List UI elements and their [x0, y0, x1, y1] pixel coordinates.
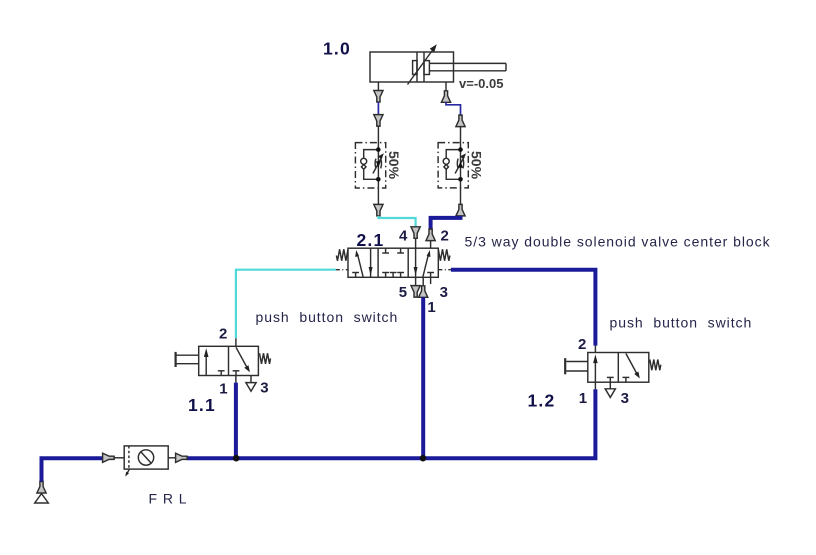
svg-text:v=-0.05: v=-0.05	[459, 76, 503, 91]
node: cylinder right port flow arrow (up)	[441, 91, 450, 103]
port label 2 (top)	[441, 228, 449, 245]
port label 3 (valve 1.2)	[621, 390, 629, 407]
description: 5/3 way valve	[465, 234, 771, 250]
svg-text:50%: 50%	[386, 151, 402, 180]
valve 1.1: 3/2 push button body	[199, 346, 259, 375]
node: flow valve V1 outlet arrow	[374, 204, 383, 216]
wire: valve 1.1 port 1 stub	[235, 376, 237, 383]
valve 2.1 right return spring	[438, 249, 450, 260]
cylinder 1.0 piston rod	[429, 63, 506, 70]
port label 5	[399, 284, 407, 301]
valve 1.2: 3/2 push button body	[588, 353, 649, 383]
flow control valve V1 (left, 50%)	[355, 143, 385, 188]
wire: port 1 stub	[422, 277, 424, 286]
valve 2.1 left return spring	[336, 249, 348, 260]
valve 1.2 return spring	[650, 360, 661, 371]
label: V2 50%	[468, 151, 484, 180]
valve 1.2 exhaust port 3 silencer	[605, 382, 615, 397]
svg-text:2.1: 2.1	[357, 230, 385, 250]
valve 1.1 push button actuator	[176, 352, 199, 367]
description: push button switch (left)	[256, 309, 399, 325]
node: flow valve V2 outlet arrow (up)	[456, 204, 465, 216]
FRL service unit	[124, 446, 168, 477]
port label 3 (valve 1.1)	[260, 380, 268, 397]
valve 1.1 label	[188, 395, 216, 415]
svg-text:1: 1	[427, 299, 435, 316]
wire: FRL inlet stub	[114, 457, 124, 459]
wire: port 4 stub	[415, 238, 417, 248]
wire: V1 to 5/3 valve port 4 (cyan)	[378, 216, 415, 227]
wire: valve 1.2 port 1 down and left along manifold	[187, 389, 596, 458]
svg-text:50%: 50%	[468, 151, 484, 180]
valve 1.1 left cell: 1 to 2 up arrow	[204, 348, 209, 375]
valve 2.1 right pilot line	[438, 269, 451, 271]
valve 2.1 left pilot line	[336, 269, 348, 271]
node: flow valve V2 inlet arrow (up)	[456, 115, 465, 127]
label: V1 50%	[386, 151, 402, 180]
node A: junction dot at valve 1.1 branch	[233, 455, 240, 462]
node B: junction dot at valve 2.1 branch	[420, 455, 427, 462]
svg-text:F R L: F R L	[149, 491, 188, 507]
cylinder 1.0 body	[370, 52, 454, 82]
wire: port 5 stub	[415, 277, 417, 286]
svg-text:2: 2	[578, 336, 586, 353]
svg-text:5: 5	[399, 284, 407, 301]
wire: cylinder left port stub	[377, 82, 379, 91]
wire: valve 1.2 port 1 stub	[594, 382, 596, 389]
wire: 5/3 port 1 down to junction B	[421, 297, 425, 458]
valve 2.1 center cell blocked ports	[382, 248, 404, 277]
valve 1.2 label	[528, 391, 556, 411]
valve 2.1 right cell: 4 to 5 down arrow	[414, 248, 418, 277]
node: port 5 exhaust arrow (down)	[411, 286, 420, 298]
wire: cylinder left port to flow valve (pressurized)	[377, 102, 379, 115]
valve 2.1 label	[357, 230, 385, 250]
svg-text:3: 3	[440, 284, 448, 301]
svg-text:4: 4	[399, 228, 408, 245]
svg-text:1: 1	[579, 390, 587, 407]
port label 1 (valve 2.1)	[427, 299, 435, 316]
valve 2.1: 5/3-way body	[348, 248, 438, 277]
valve 2.1 left cell: 2 to 3 down arrow	[369, 248, 373, 277]
wire: valve 1.1 port 1 down to junction A	[234, 383, 238, 459]
wire: cylinder right port to flow valve V2	[446, 102, 461, 115]
wire: source up to FRL inlet	[42, 458, 103, 481]
valve 1.2 right cell: 2 to 3 arrow	[626, 354, 640, 379]
valve 1.2 left cell: 1 to 2 up arrow	[593, 354, 598, 382]
wire: pilot cyan from valve 1.1 port 2	[236, 270, 336, 339]
wire: port 3 stub	[430, 277, 432, 284]
port label 1 (valve 1.2)	[579, 390, 587, 407]
wire: port 2 stub	[430, 241, 432, 249]
valve 2.1 right cell: 1 to 2 arrow	[423, 250, 431, 277]
wire: valve 1.2 port 2 stub	[594, 346, 596, 353]
wire: flow valve V2 main line	[460, 127, 462, 205]
cylinder U1 label 1.0	[323, 39, 351, 59]
svg-text:3: 3	[260, 380, 268, 397]
valve 1.1 return spring	[260, 353, 271, 364]
wire: V2 to 5/3 valve port 2 (pressure)	[431, 216, 461, 230]
valve 1.2 right cell: port 1 blocked	[623, 377, 630, 382]
valve 1.1 left cell: port blocked	[218, 371, 225, 376]
valve 1.2 left cell: port 3 blocked	[607, 377, 614, 382]
valve 1.1 exhaust port 3 silencer	[246, 376, 256, 392]
wire: right pilot to valve 1.2 port 2	[451, 270, 596, 346]
cylinder 1.0 cushion adjust arrow	[408, 44, 437, 84]
svg-text:3: 3	[621, 390, 629, 407]
port label 1 (valve 1.1)	[219, 381, 227, 398]
node: FRL outlet flow arrow (right)	[176, 453, 188, 462]
valve 2.1 right cell: port 3 blocked	[427, 273, 434, 278]
svg-text:push button switch: push button switch	[610, 315, 753, 331]
description: push button switch (right)	[610, 315, 753, 331]
svg-text:5/3 way double solenoid valve: 5/3 way double solenoid valve center blo…	[465, 234, 771, 250]
port label 2 (valve 1.2)	[578, 336, 586, 353]
valve 1.2 push button actuator	[565, 358, 588, 374]
valve 1.1 right cell: 2 to 3 arrow	[236, 347, 250, 372]
node: cylinder left port flow arrow	[374, 91, 383, 103]
wire: valve 1.1 port 2 stub	[235, 338, 237, 346]
node: FRL inlet flow arrow (right)	[103, 453, 115, 462]
svg-text:1.1: 1.1	[188, 395, 216, 415]
svg-text:1: 1	[219, 381, 227, 398]
port label 3 (valve 2.1)	[440, 284, 448, 301]
compressed air source	[35, 482, 49, 504]
node: flow valve V1 inlet arrow	[374, 115, 383, 127]
valve 1.1 right cell: port 1 blocked	[233, 371, 240, 376]
node: port 4 flow arrow	[411, 227, 420, 239]
svg-text:2: 2	[441, 228, 449, 245]
valve 2.1 left cell: port 5 blocked	[352, 273, 359, 278]
label F R L	[149, 491, 188, 507]
wire: FRL outlet stub	[168, 457, 175, 459]
svg-text:1.2: 1.2	[528, 391, 556, 411]
node: port 1 flow arrow (up)	[419, 286, 428, 298]
svg-text:push button switch: push button switch	[256, 309, 399, 325]
valve 2.1 left cell: 1 to 4 arrow	[355, 250, 363, 277]
svg-text:1.0: 1.0	[323, 39, 351, 59]
flow control valve V2 (right, 50%)	[438, 143, 468, 188]
port label 4	[399, 228, 408, 245]
node: port 2 flow arrow (up)	[426, 229, 435, 241]
svg-text:2: 2	[219, 326, 227, 343]
cylinder 1.0 value label v=-0.05	[459, 76, 503, 91]
wire: flow valve V1 main line	[377, 126, 379, 205]
wire: cylinder right port stub	[445, 82, 447, 92]
port label 2 (valve 1.1)	[219, 326, 227, 343]
